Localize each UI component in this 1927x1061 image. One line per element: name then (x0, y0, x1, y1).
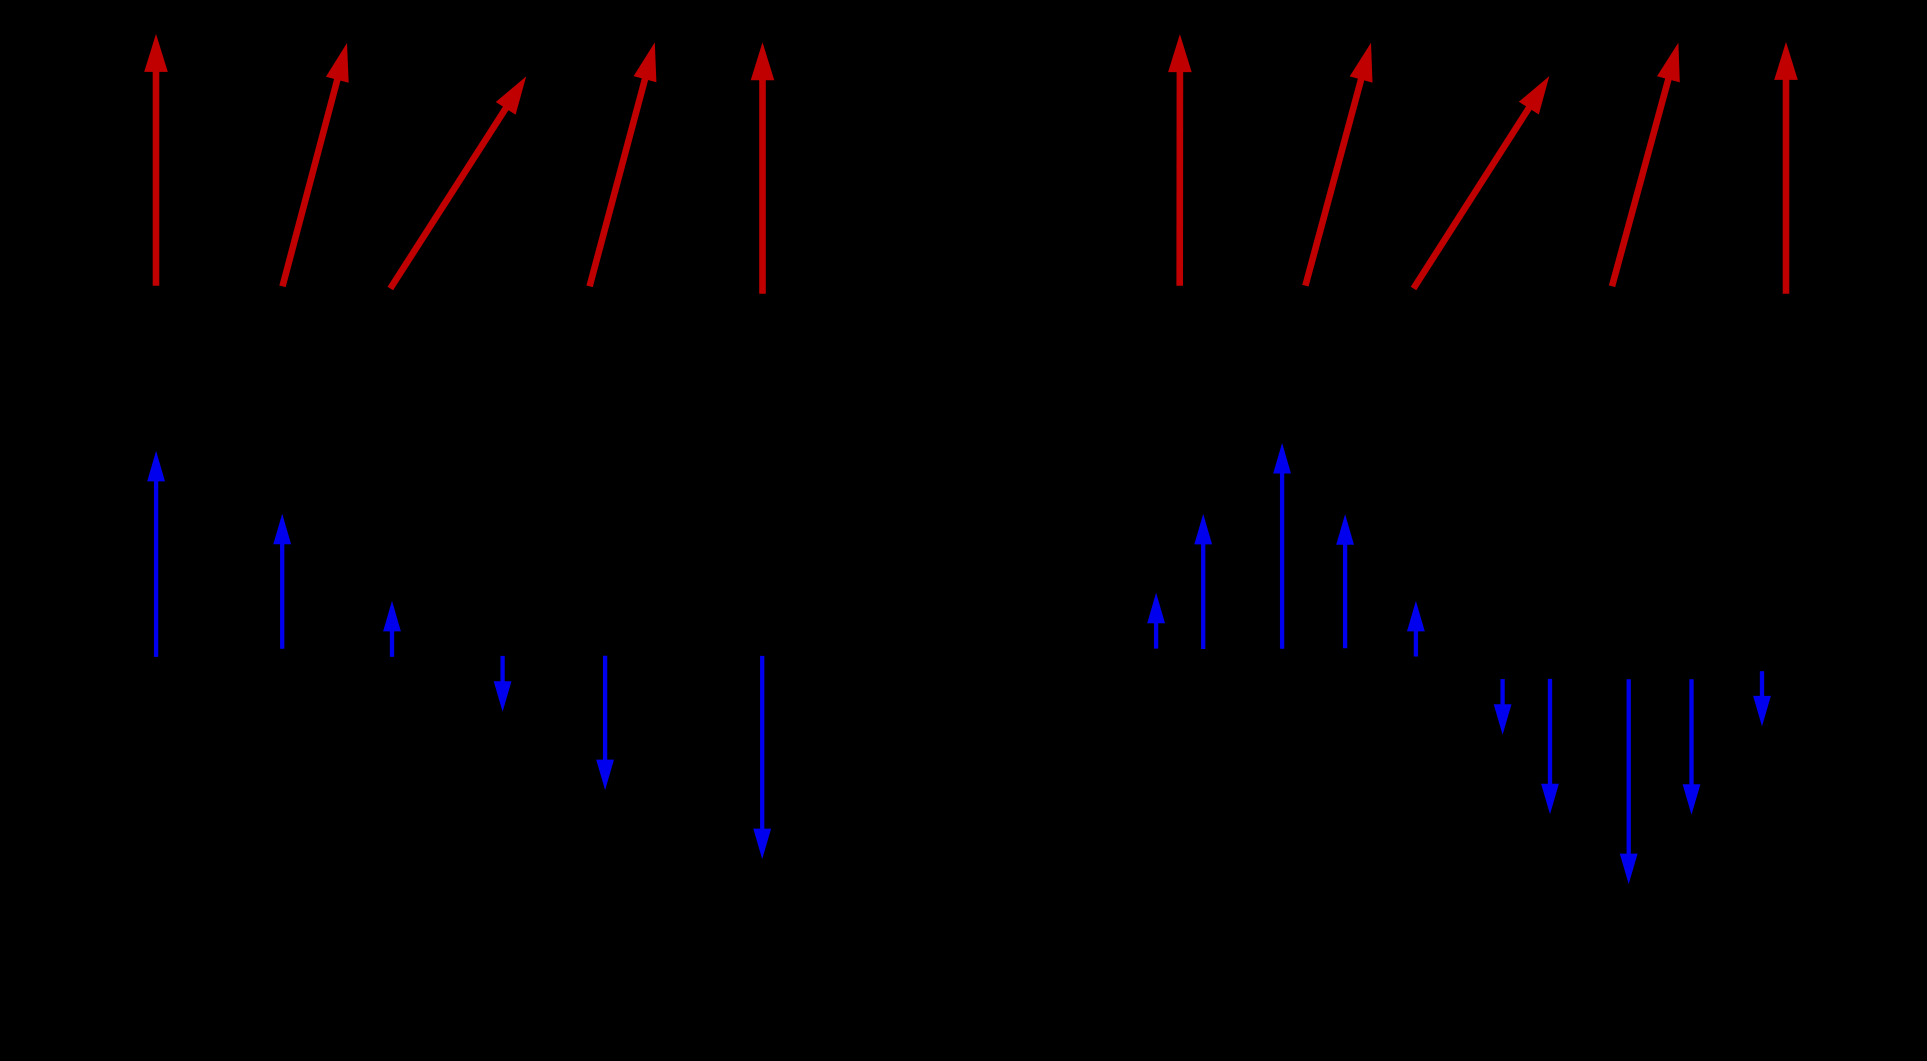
blue deviation arrow 15 (right panel, medium down) (1683, 679, 1701, 815)
blue deviation arrow 8 (right panel, medium up) (1194, 514, 1212, 649)
red spin arrow 4 (left panel, tilted ~15deg) (590, 42, 657, 286)
blue deviation arrow 7 (right panel, short up) (1147, 593, 1165, 649)
red spin arrow 9 (right panel, tilted ~15deg) (1612, 43, 1680, 287)
blue deviation arrow 1 (left panel, long up) (147, 451, 165, 657)
red spin arrow 5 (left panel, vertical) (751, 42, 775, 294)
blue deviation arrow 9 (right panel, long up) (1273, 443, 1291, 649)
blue deviation arrow 12 (right panel, short down) (1494, 679, 1512, 735)
red spin arrow 2 (left panel, tilted ~15deg) (283, 43, 349, 286)
red spin arrow 6 (right panel, vertical) (1168, 34, 1192, 286)
blue deviation arrow 5 (left panel, medium down) (596, 656, 614, 790)
red spin arrow 3 (left panel, tilted ~33deg) (390, 76, 526, 288)
blue deviation arrow 6 (left panel, long down) (753, 656, 771, 859)
blue deviation arrow 4 (left panel, short down) (494, 656, 512, 712)
blue deviation arrow 14 (right panel, long down) (1620, 679, 1638, 884)
red spin arrow 10 (right panel, vertical) (1774, 42, 1798, 294)
blue deviation arrow 10 (right panel, medium up) (1336, 514, 1354, 648)
blue deviation arrow 16 (right panel, short down) (1753, 671, 1771, 726)
red spin arrow 7 (right panel, tilted ~15deg) (1305, 43, 1372, 286)
blue deviation arrow 13 (right panel, medium down) (1541, 679, 1559, 814)
red spin arrow 8 (right panel, tilted ~33deg) (1414, 76, 1550, 288)
red spin arrow 1 (left panel, vertical) (144, 34, 168, 286)
blue deviation arrow 11 (right panel, short up) (1407, 601, 1425, 657)
blue deviation arrow 3 (left panel, short up) (383, 601, 401, 657)
blue deviation arrow 2 (left panel, medium up) (273, 514, 291, 649)
